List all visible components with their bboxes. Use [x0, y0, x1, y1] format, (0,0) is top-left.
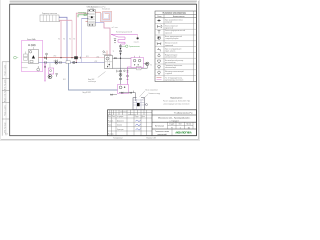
svg-text:с. Городня: с. Городня — [170, 120, 179, 122]
pipe boiler to loop (red) — [95, 11, 100, 13]
svg-text:Листов: Листов — [186, 124, 191, 126]
svg-text:Копировал: Копировал — [113, 138, 122, 140]
svg-text:реконструкции системы отоплени: реконструкции системы отопления — [164, 103, 190, 105]
pipe T2 radiator return (blue) — [59, 17, 67, 62]
svg-text:Московская обл., Луховицкий ра: Московская обл., Луховицкий район, — [158, 117, 191, 120]
svg-text:газопровод: газопровод — [78, 12, 86, 14]
radiator outlet ticks — [58, 17, 60, 22]
valve on riser — [119, 45, 121, 47]
svg-text:Лист: Лист — [179, 124, 183, 126]
inline filter on T2 — [66, 61, 70, 64]
svg-text:Стадия: Стадия — [169, 124, 174, 126]
drain cock — [56, 74, 58, 77]
DHW line to meter (dark) — [113, 57, 132, 59]
svg-text:Лист: Лист — [112, 116, 116, 118]
pipe T1 radiator supply (pink) — [59, 20, 72, 57]
legend row symbols — [157, 20, 162, 80]
pump ticks — [56, 60, 58, 61]
boiler room boundary (magenta) — [22, 41, 43, 72]
recirc pump — [48, 75, 52, 79]
svg-text:Подп. и дата: Подп. и дата — [4, 65, 6, 76]
floor boiler — [29, 47, 39, 64]
drawing frame — [10, 4, 197, 136]
branch arrow — [44, 80, 45, 82]
leader note — [88, 72, 106, 84]
main return pipe T2 (blue) — [39, 62, 105, 64]
well — [133, 98, 145, 110]
gas inlet symbol (green) — [14, 56, 17, 59]
valve on riser 2 — [119, 50, 121, 52]
svg-text:Взам. инв. №: Взам. инв. № — [3, 91, 6, 102]
svg-text:Ввод ХВС: Ввод ХВС — [88, 79, 94, 81]
booster pump — [144, 62, 150, 68]
svg-text:Пров.: Пров. — [108, 125, 113, 127]
svg-text:СВ: СВ — [138, 68, 140, 70]
svg-text:Подп. и дата: Подп. и дата — [4, 105, 6, 116]
svg-text:возд.отв.: возд.отв. — [134, 42, 140, 44]
junction dot — [120, 48, 121, 49]
main supply pipe T1 (red) — [39, 57, 79, 59]
pipe loop return (blue) — [95, 21, 104, 23]
meter on drop — [127, 75, 129, 77]
svg-text:Полотенцесушитель М: Полотенцесушитель М — [116, 32, 133, 34]
gauge cluster on loop riser — [114, 39, 116, 44]
small link lines — [49, 63, 51, 68]
floor heating loop spiral (red) — [101, 11, 112, 21]
svg-text:Скважина на воду: Скважина на воду — [148, 93, 160, 95]
svg-text:Инв. № дубл.: Инв. № дубл. — [3, 78, 6, 90]
riser valve lower — [119, 78, 121, 80]
mixing valve on T1 (dark) — [74, 56, 78, 59]
drain mark below valve — [46, 59, 47, 60]
svg-text:Термометр биметаллич.: Термометр биметаллич. — [165, 65, 183, 67]
valve on return (dark) — [60, 61, 62, 63]
riser valve upper — [119, 70, 121, 72]
pipe meter to well (dark) — [119, 93, 136, 101]
green link — [122, 45, 126, 47]
cold water inlet pipe (blue) — [69, 63, 118, 90]
towel rail serpentine (magenta) — [111, 34, 138, 44]
svg-text:Наименование: Наименование — [173, 16, 185, 18]
svg-text:котельной: котельной — [158, 133, 167, 136]
pipe loop to manifold (pink) — [104, 22, 110, 55]
svg-text:Условные обозначения: Условные обозначения — [163, 12, 187, 15]
page edge shading — [0, 0, 200, 141]
title block small texts — [108, 111, 145, 135]
svg-text:АКВАЛОГИКА: АКВАЛОГИКА — [175, 132, 192, 135]
riser labels — [58, 39, 75, 41]
svg-text:Т1: Т1 — [69, 39, 71, 41]
thermo valve (green) — [126, 45, 128, 47]
cold water line (dark) — [113, 67, 148, 69]
well float — [146, 104, 148, 106]
svg-text:Изм: Изм — [108, 116, 111, 118]
thermometer on T1 — [46, 53, 48, 55]
inline label box — [137, 66, 142, 70]
wall control unit — [22, 52, 29, 68]
svg-text:Ø25: Ø25 — [86, 56, 89, 58]
svg-text:Кран со штуцером для: Кран со штуцером для — [165, 49, 181, 51]
check valve on riser — [120, 53, 122, 55]
circulation pump P1 — [55, 61, 58, 64]
left margin vertical labels — [3, 65, 6, 133]
svg-text:Формат А3: Формат А3 — [146, 137, 156, 140]
wall boiler unit — [86, 10, 96, 27]
svg-text:В1: В1 — [150, 65, 152, 67]
valve on T2 — [44, 61, 46, 63]
junction dots — [60, 57, 77, 63]
crossing dot — [120, 58, 121, 59]
pale return riser (blue) — [81, 19, 83, 63]
bypass stub with valve — [110, 94, 117, 96]
expansion vessel — [37, 66, 40, 71]
title block grid — [108, 110, 197, 136]
air vent on riser top — [137, 37, 139, 39]
svg-text:Н.контр.: Н.контр. — [108, 133, 114, 135]
well leaders and labels — [140, 88, 161, 99]
small valve on line — [130, 92, 132, 94]
svg-text:трубопроводы отопления: трубопроводы отопления — [165, 80, 183, 82]
signatures — [135, 120, 140, 130]
tick after box — [133, 91, 135, 93]
pipe T1 riser 2 (pink) — [71, 20, 73, 57]
svg-text:1: 1 — [180, 127, 181, 129]
valve on dhw drop — [44, 66, 46, 68]
meter unit 2 (magenta) — [118, 85, 129, 94]
svg-text:для отопления: для отопления — [165, 62, 176, 64]
small fittings row — [28, 44, 35, 46]
svg-text:Ø32: Ø32 — [63, 79, 66, 81]
left margin attribute column — [2, 62, 10, 136]
gas valve (green) — [84, 14, 86, 16]
svg-text:Котельная: Котельная — [155, 126, 164, 128]
svg-text:Т3: Т3 — [113, 51, 115, 53]
riser pump — [119, 73, 122, 76]
svg-text:Инв. № подл.: Инв. № подл. — [3, 121, 6, 133]
valve on T1 — [44, 57, 46, 59]
riser side tick — [117, 70, 119, 73]
svg-text:Ввод В1 Ø32: Ввод В1 Ø32 — [83, 92, 92, 94]
svg-text:Т1: Т1 — [58, 39, 60, 41]
svg-text:10: 10 — [188, 127, 190, 129]
svg-text:Ø32: Ø32 — [95, 61, 98, 63]
svg-text:Ø50: Ø50 — [54, 55, 57, 57]
legend row texts — [165, 19, 185, 82]
svg-text:Котел 24кВт: Котел 24кВт — [27, 39, 36, 41]
svg-text:Примечание:: Примечание: — [170, 98, 183, 100]
well pump — [137, 103, 140, 106]
svg-text:Кузнецов: Кузнецов — [117, 129, 124, 131]
svg-text:Т2: Т2 — [63, 39, 65, 41]
hot water riser — [120, 44, 122, 85]
stage/sheet cells — [169, 124, 191, 126]
riser air vent — [124, 70, 126, 72]
svg-text:Обозн.: Обозн. — [157, 16, 163, 18]
radiator — [40, 15, 59, 22]
recirc unit box (magenta) — [48, 68, 53, 74]
valve on dhw line — [114, 57, 116, 59]
hydraulic unit — [105, 56, 113, 69]
svg-text:Т2: Т2 — [74, 39, 76, 41]
svg-text:в котельную: в котельную — [88, 81, 96, 83]
svg-text:Ø32: Ø32 — [97, 56, 100, 58]
svg-text:с мокрым ротором: с мокрым ротором — [165, 38, 178, 40]
red stub above unit — [106, 51, 108, 56]
tick on T1 — [80, 57, 82, 59]
svg-text:подкл. шланга: подкл. шланга — [165, 51, 175, 53]
pump on T2 (dark) — [73, 61, 75, 63]
title block outline — [108, 110, 197, 136]
svg-text:Ф.2: Ф.2 — [5, 133, 8, 136]
floor heating loop spiral (blue) — [102, 12, 111, 20]
svg-text:Громов: Громов — [117, 125, 122, 127]
legend table grid — [155, 11, 197, 82]
gas pipe (green) — [78, 15, 88, 17]
svg-text:Разраб.: Разраб. — [108, 120, 114, 122]
gauge near hydro top — [103, 51, 106, 53]
svg-text:ТС.Аквалогика.Ры: ТС.Аквалогика.Ры — [174, 112, 193, 115]
svg-text:Согласовано: Согласовано — [120, 111, 127, 113]
meter unit 1 (magenta) — [131, 56, 144, 68]
svg-text:Воздухоотводчик: Воздухоотводчик — [165, 54, 178, 56]
svg-text:Подп.: Подп. — [135, 116, 140, 118]
valve on drop — [127, 70, 129, 72]
svg-text:Термосмеситель: Термосмеситель — [129, 46, 140, 48]
symbol in box — [50, 70, 52, 72]
svg-text:Радиатор отопления: Радиатор отопления — [42, 13, 57, 15]
svg-text:Дата: Дата — [142, 116, 145, 118]
svg-text:на 2 этаж: на 2 этаж — [112, 27, 118, 29]
cold feed drop (magenta) — [128, 67, 132, 85]
DHW branch down (magenta) — [44, 63, 46, 81]
svg-text:Зам.директора: Зам.директора — [128, 114, 137, 116]
